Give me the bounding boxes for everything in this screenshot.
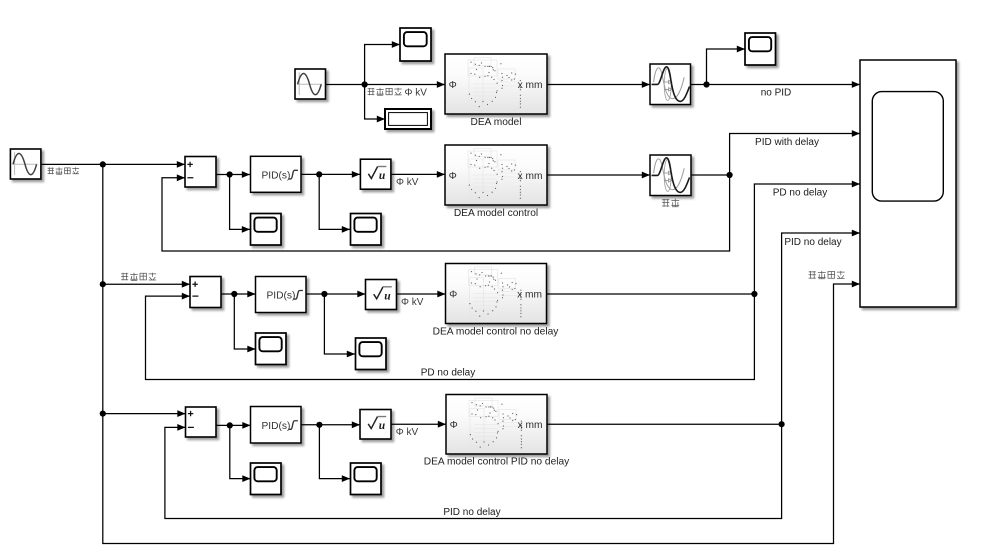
wire PID2 to sqrt2 bbox=[301, 171, 360, 178]
junction node sum3 output bbox=[231, 291, 237, 297]
block name label DEA model control bbox=[454, 208, 538, 219]
PID controller block row2 bbox=[251, 156, 302, 192]
scope Scope7 (error row4) bbox=[251, 463, 282, 495]
sine wave source Sine Wave (drive voltage) bbox=[295, 69, 326, 99]
subsystem DEA model bbox=[445, 54, 547, 114]
wire hysteresis to big scope input 1 bbox=[691, 81, 861, 88]
scope Scope2 bbox=[745, 33, 776, 65]
scope Scope3 (error row2) bbox=[251, 214, 282, 246]
wire sum3 to PID3 bbox=[221, 291, 256, 298]
wire hysteresis2 to junction bbox=[691, 174, 730, 176]
wire feedback row4 to sum4 minus input bbox=[165, 424, 782, 519]
wire branch up to Scope2 bbox=[707, 46, 746, 85]
wire feedback row2 to sum2 minus input bbox=[162, 174, 730, 251]
sqrt block row2 bbox=[360, 159, 391, 189]
wire DEA4 output to junction bbox=[547, 423, 782, 425]
junction node sum2 output bbox=[227, 171, 233, 177]
signal label PD no delay on feedback bbox=[421, 367, 475, 378]
block name label DEA model control no delay bbox=[433, 326, 560, 337]
svg-text:DEA model control: DEA model control bbox=[454, 208, 538, 219]
wire sine2 to sum2 plus input bbox=[41, 161, 185, 168]
svg-text:PID(s): PID(s) bbox=[262, 421, 291, 432]
hysteresis block (delay) row1 bbox=[650, 64, 691, 105]
scope Scope5 (error row3) bbox=[256, 333, 287, 365]
scope Scope1 bbox=[400, 28, 431, 61]
svg-text:x mm: x mm bbox=[517, 289, 542, 300]
svg-text:PID no delay: PID no delay bbox=[443, 507, 500, 518]
wire PID3 to sqrt3 bbox=[306, 291, 366, 298]
wire up to big scope input 2 bbox=[730, 130, 860, 175]
wire sum2 to PID2 bbox=[216, 171, 250, 178]
wire sqrt3 to DEA model control no delay bbox=[397, 291, 446, 298]
wire branch down to Scope6 bbox=[324, 294, 355, 357]
svg-text:Φ kV: Φ kV bbox=[401, 297, 424, 308]
wire reference trunk down and to big scope input 5 bbox=[103, 164, 860, 543]
PID controller block row3 bbox=[256, 277, 307, 313]
svg-text:PD no delay: PD no delay bbox=[421, 367, 475, 378]
signal label 参考位移 at scope input 5 bbox=[809, 271, 845, 279]
svg-text:PID(s): PID(s) bbox=[262, 170, 291, 181]
svg-text:Φ kV: Φ kV bbox=[405, 87, 428, 98]
signal label no PID bbox=[761, 88, 792, 99]
wire up to big scope input 4 bbox=[782, 230, 860, 425]
signal label 参考位移 row2 bbox=[48, 167, 80, 174]
wire sqrt4 to DEA model control PID no delay bbox=[391, 421, 446, 428]
signal label PID no delay at scope bbox=[784, 237, 841, 248]
wire DEA3 output to junction bbox=[547, 293, 755, 295]
wire branch down to Scope7 bbox=[230, 425, 251, 482]
svg-text:x mm: x mm bbox=[518, 171, 543, 182]
svg-text:Φ: Φ bbox=[449, 171, 457, 182]
wire branch down to Scope4 bbox=[319, 174, 350, 232]
junction node PID3 output bbox=[321, 291, 327, 297]
hysteresis block 迟滞 row2 bbox=[650, 155, 691, 196]
svg-text:PD no delay: PD no delay bbox=[773, 188, 827, 199]
wire branch down to Scope3 bbox=[230, 175, 250, 233]
signal label Φ kV row2 bbox=[396, 177, 419, 188]
subsystem DEA model control bbox=[445, 145, 547, 205]
PID controller block row4 bbox=[251, 407, 302, 444]
signal label PID no delay on feedback bbox=[443, 507, 500, 518]
subsystem DEA model control PID no delay bbox=[446, 395, 547, 455]
subsystem DEA model control no delay bbox=[446, 264, 547, 324]
signal label Φ kV row3 bbox=[401, 297, 424, 308]
junction node row4 output bbox=[779, 421, 785, 427]
sqrt block row4 bbox=[360, 410, 391, 440]
svg-text:u: u bbox=[384, 290, 391, 302]
scope multi-input Scope (main) bbox=[860, 60, 956, 307]
wire up to big scope input 3 bbox=[754, 181, 860, 294]
wire PID4 to sqrt4 bbox=[301, 421, 360, 428]
block name label 迟滞 bbox=[662, 199, 679, 207]
junction node row3 output bbox=[751, 291, 757, 297]
svg-text:Φ: Φ bbox=[449, 289, 457, 300]
wire branch down to Scope5 bbox=[234, 294, 255, 352]
scope Scope8 (control row4) bbox=[351, 463, 382, 495]
junction node PID4 output bbox=[316, 422, 322, 428]
scope Scope4 (control row2) bbox=[351, 214, 382, 246]
wire branch down to Scope8 bbox=[319, 425, 350, 482]
svg-text:u: u bbox=[379, 170, 386, 182]
junction node trunk row4 bbox=[100, 411, 106, 417]
block name label DEA model control PID no delay bbox=[424, 457, 570, 468]
wire sqrt2 to DEA model control bbox=[391, 171, 445, 178]
svg-text:PID no delay: PID no delay bbox=[784, 237, 841, 248]
wire DEA model to hysteresis bbox=[547, 81, 650, 88]
wire DEA model control to hysteresis2 bbox=[547, 172, 650, 179]
junction node reference trunk top bbox=[100, 161, 106, 167]
signal label PD no delay at scope bbox=[773, 188, 827, 199]
wire trunk to sum4 plus input bbox=[103, 410, 186, 417]
junction node row2 output bbox=[727, 172, 733, 178]
signal label 驱动电压 Φ kV bbox=[368, 87, 428, 98]
sum block Sum row3 bbox=[190, 277, 221, 308]
wire trunk to sum3 plus input bbox=[103, 281, 190, 288]
svg-text:DEA model: DEA model bbox=[471, 117, 522, 128]
junction node PID2 output bbox=[316, 171, 322, 177]
signal label PID with delay bbox=[755, 137, 819, 148]
junction node trunk row3 bbox=[100, 281, 106, 287]
svg-text:u: u bbox=[379, 420, 386, 432]
svg-text:Φ kV: Φ kV bbox=[396, 177, 419, 188]
wire branch up to Scope1 bbox=[365, 41, 400, 84]
signal label 参考位移 row3 bbox=[121, 273, 156, 281]
signal label Φ kV row4 bbox=[396, 427, 419, 438]
sum block Sum row2 bbox=[185, 157, 216, 188]
svg-text:x mm: x mm bbox=[518, 420, 543, 431]
svg-text:Φ: Φ bbox=[450, 420, 458, 431]
svg-text:PID(s): PID(s) bbox=[267, 291, 296, 302]
wire feedback row3 to sum3 minus input bbox=[146, 293, 755, 380]
wire sine1 to DEA model input bbox=[326, 81, 446, 88]
wire sum4 to PID4 bbox=[216, 422, 251, 429]
svg-text:DEA model control PID no delay: DEA model control PID no delay bbox=[424, 457, 570, 468]
junction node drive voltage bbox=[362, 81, 368, 87]
scope Scope6 (control row3) bbox=[356, 338, 387, 370]
svg-text:PID with delay: PID with delay bbox=[755, 137, 819, 148]
junction node after hysteresis row1 bbox=[703, 81, 709, 87]
sqrt block row3 bbox=[366, 280, 397, 310]
svg-text:DEA model control no delay: DEA model control no delay bbox=[433, 326, 560, 337]
svg-text:Φ kV: Φ kV bbox=[396, 427, 419, 438]
display block Display bbox=[385, 109, 431, 129]
wire branch down to Display bbox=[365, 85, 385, 123]
svg-text:no PID: no PID bbox=[761, 88, 792, 99]
junction node sum4 output bbox=[227, 422, 233, 428]
sum block Sum row4 bbox=[186, 407, 217, 437]
svg-text:x mm: x mm bbox=[518, 80, 543, 91]
sine wave source Sine Wave1 (reference displacement) bbox=[10, 149, 41, 179]
block name label DEA model bbox=[471, 117, 522, 128]
svg-text:Φ: Φ bbox=[449, 80, 457, 91]
